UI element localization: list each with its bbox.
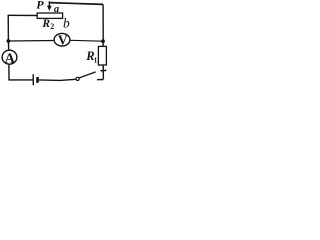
wire bottom hook (97, 79, 103, 81)
svg-text:1: 1 (94, 55, 98, 64)
wire right vertical (102, 4, 104, 46)
battery long plate (32, 74, 34, 85)
wire R1 bottom down (102, 65, 104, 79)
svg-text:R: R (41, 18, 50, 30)
wire bottom-left to battery (8, 79, 32, 81)
node right junction (101, 39, 105, 43)
wire battery to switch (39, 79, 76, 80)
svg-text:A: A (5, 51, 16, 67)
svg-text:P: P (36, 0, 44, 12)
rheostat R2 body (37, 13, 62, 18)
wire ammeter bottom to corner (8, 64, 10, 80)
node left junction (6, 39, 10, 43)
svg-text:a: a (54, 4, 59, 15)
rheostat slider arrow P (47, 1, 52, 11)
switch pivot terminal (76, 77, 79, 80)
wire voltmeter right (70, 39, 103, 42)
svg-text:2: 2 (50, 22, 54, 31)
switch fixed contact bar (101, 69, 107, 71)
wire top-left horizontal (8, 14, 37, 16)
wire slider to top-right (50, 3, 103, 5)
voltmeter V (54, 33, 70, 48)
wire left vertical (7, 15, 10, 50)
battery short plate (36, 77, 39, 83)
switch blade (79, 72, 95, 78)
ammeter A (2, 50, 17, 67)
svg-text:b: b (63, 16, 70, 31)
resistor R1 (98, 46, 106, 65)
svg-text:V: V (58, 33, 68, 48)
wire voltmeter left (8, 40, 54, 43)
